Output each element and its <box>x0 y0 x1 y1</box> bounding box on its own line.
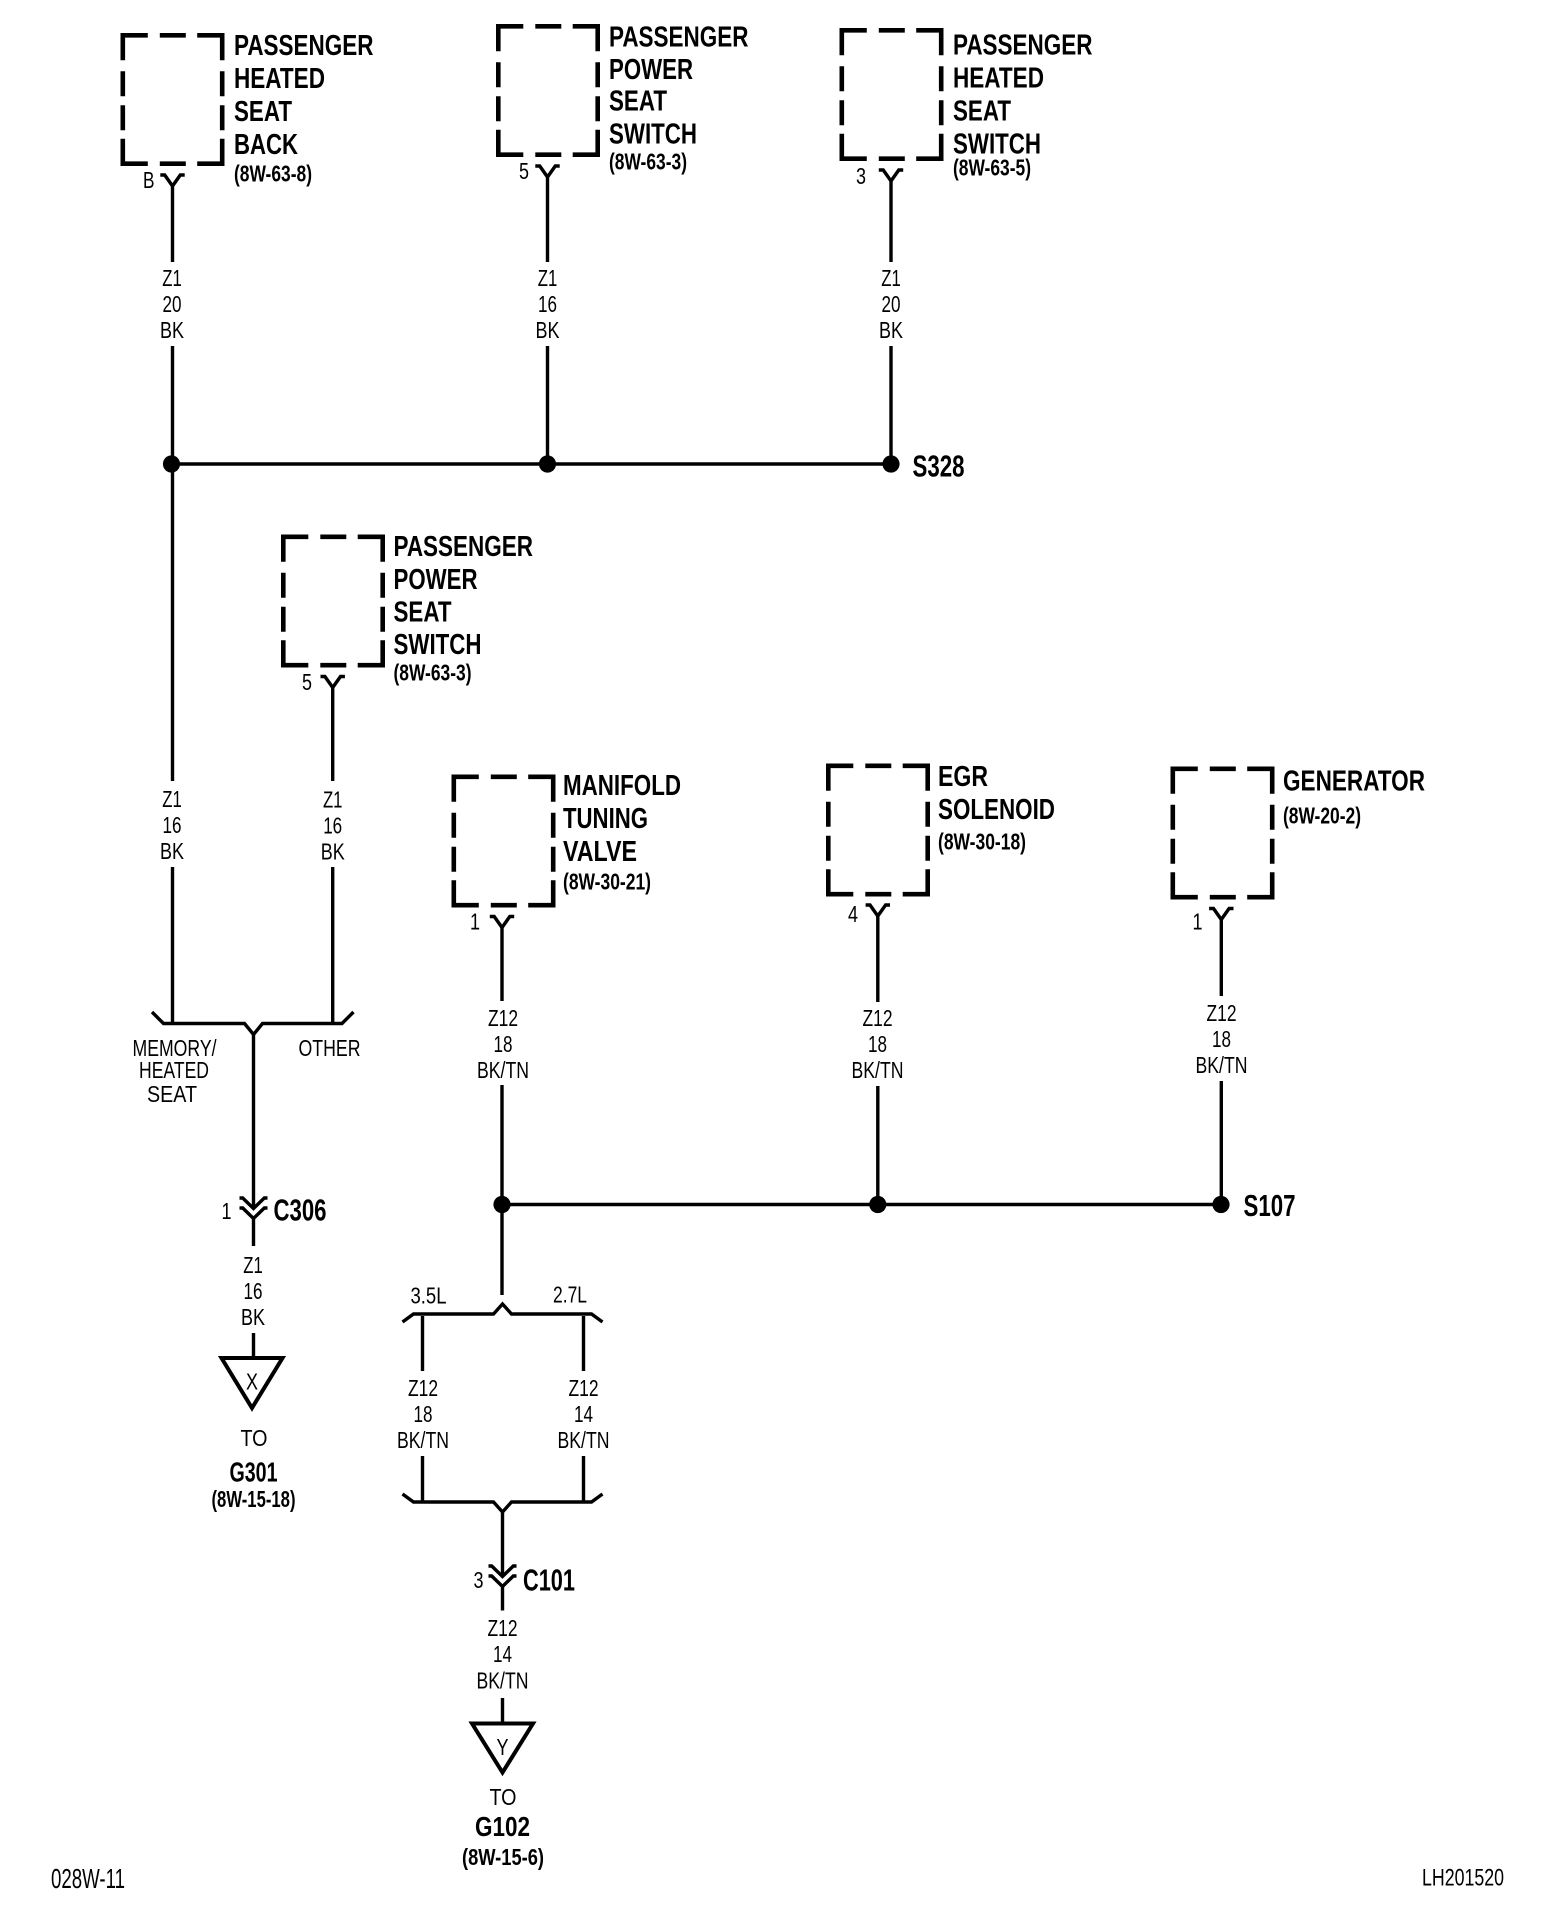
svg-text:18: 18 <box>414 1401 433 1427</box>
svg-text:POWER: POWER <box>394 564 478 596</box>
label PASSENGER POWER SEAT SWITCH (8W-63-3) <box>609 22 749 175</box>
wire to ground G102 <box>501 1698 504 1722</box>
svg-text:G102: G102 <box>475 1811 530 1842</box>
label EGR SOLENOID (8W-30-18) <box>938 761 1055 855</box>
svg-text:BK: BK <box>321 838 346 864</box>
svg-text:POWER: POWER <box>609 54 693 86</box>
svg-text:3: 3 <box>474 1567 484 1593</box>
svg-text:Z1: Z1 <box>538 265 558 291</box>
svg-text:SEAT: SEAT <box>394 597 452 629</box>
wire 2.7L branch lower <box>582 1456 585 1501</box>
merge brace engine variants <box>403 1494 603 1512</box>
svg-text:OTHER: OTHER <box>299 1035 361 1061</box>
svg-text:028W-11: 028W-11 <box>51 1863 125 1894</box>
connector fork pin 3 <box>879 170 903 181</box>
svg-text:20: 20 <box>163 291 182 317</box>
wire splice S107 to engine split <box>500 1205 503 1296</box>
svg-text:BK/TN: BK/TN <box>1196 1052 1248 1078</box>
svg-text:BACK: BACK <box>234 129 298 161</box>
svg-text:14: 14 <box>493 1641 512 1667</box>
junction dot S107 middle <box>869 1196 886 1213</box>
svg-text:SEAT: SEAT <box>234 96 292 128</box>
junction dot S328 left <box>163 455 180 472</box>
svg-text:Z1: Z1 <box>881 265 901 291</box>
svg-text:3: 3 <box>856 163 866 189</box>
wire to ground G301 <box>252 1333 255 1356</box>
svg-text:HEATED: HEATED <box>139 1057 209 1083</box>
junction dot S328 middle <box>539 455 556 472</box>
wire to splice S328 left <box>171 346 174 464</box>
connector fork EGR pin 4 <box>866 905 890 916</box>
svg-text:18: 18 <box>1212 1026 1231 1052</box>
wire Z1 16 BK from power seat switch <box>546 176 549 262</box>
svg-text:PASSENGER: PASSENGER <box>234 30 374 62</box>
label GENERATOR (8W-20-2) <box>1283 766 1425 829</box>
wire Z1 20 BK from heated seat switch <box>889 180 892 262</box>
connector fork generator pin 1 <box>1209 909 1233 920</box>
wire Z12 18 BK/TN from EGR upper <box>876 916 879 1002</box>
svg-text:BK/TN: BK/TN <box>477 1667 529 1693</box>
label PASSENGER HEATED SEAT BACK (8W-63-8) <box>234 30 374 187</box>
label Z1 20 BK <box>160 265 185 343</box>
junction dot S107 right <box>1212 1196 1229 1213</box>
svg-text:Z12: Z12 <box>569 1375 599 1401</box>
svg-text:18: 18 <box>868 1031 887 1057</box>
svg-text:MANIFOLD: MANIFOLD <box>563 770 681 802</box>
svg-text:Z1: Z1 <box>323 787 343 813</box>
svg-text:EGR: EGR <box>938 761 988 793</box>
wire 2.7L branch upper <box>582 1316 585 1371</box>
wire to splice S328 right <box>889 346 892 464</box>
svg-text:(8W-15-18): (8W-15-18) <box>212 1486 296 1512</box>
svg-text:HEATED: HEATED <box>234 63 325 95</box>
svg-text:5: 5 <box>302 669 312 695</box>
component box GENERATOR <box>1173 769 1272 897</box>
svg-text:1: 1 <box>1193 909 1203 935</box>
in-line connector C101 chevrons <box>489 1566 517 1587</box>
wire stub below C101 <box>501 1587 504 1611</box>
svg-text:2.7L: 2.7L <box>553 1282 587 1308</box>
svg-text:BK/TN: BK/TN <box>852 1057 904 1083</box>
wire Z12 18 BK/TN from EGR lower <box>876 1086 879 1205</box>
svg-text:BK/TN: BK/TN <box>477 1057 529 1083</box>
component box PASSENGER POWER SEAT SWITCH (lower) <box>283 537 382 665</box>
wire Z1 20 BK from heated seat back <box>171 186 174 262</box>
merge brace memory/other <box>152 1012 354 1035</box>
label MEMORY/HEATED SEAT <box>133 1035 217 1107</box>
wire merge to connector C306 <box>252 1035 255 1209</box>
svg-text:Y: Y <box>497 1734 509 1760</box>
ground symbol X <box>222 1358 283 1408</box>
svg-text:SEAT: SEAT <box>609 86 667 118</box>
junction dot S107 left <box>493 1196 510 1213</box>
svg-text:LH201520: LH201520 <box>1422 1865 1504 1892</box>
svg-text:SEAT: SEAT <box>147 1081 197 1107</box>
svg-text:BK: BK <box>536 317 561 343</box>
wire 3.5L branch lower <box>421 1456 424 1501</box>
svg-text:SWITCH: SWITCH <box>609 119 697 151</box>
svg-text:G301: G301 <box>230 1457 278 1488</box>
svg-text:5: 5 <box>519 158 529 184</box>
label Z1 16 BK <box>536 265 561 343</box>
component box PASSENGER HEATED SEAT SWITCH <box>842 30 941 158</box>
svg-text:TO: TO <box>490 1784 517 1810</box>
svg-text:(8W-63-3): (8W-63-3) <box>394 660 472 686</box>
svg-text:(8W-63-8): (8W-63-8) <box>234 161 312 187</box>
svg-text:Z12: Z12 <box>488 1005 518 1031</box>
svg-text:1: 1 <box>470 909 480 935</box>
wire stub below C306 <box>252 1219 255 1247</box>
svg-text:SEAT: SEAT <box>953 96 1011 128</box>
component box MANIFOLD TUNING VALVE <box>454 777 553 905</box>
wire Z12 18 BK/TN from MTV lower <box>500 1085 503 1205</box>
svg-text:S328: S328 <box>913 450 965 484</box>
label Z1 16 BK to ground <box>241 1252 266 1330</box>
wire Z1 16 BK memory branch lower <box>171 867 174 1023</box>
connector fork pin 5 <box>535 166 559 177</box>
label Z12 18 BK/TN generator <box>1196 1000 1248 1078</box>
wire Z12 18 BK/TN from generator upper <box>1220 920 1223 997</box>
svg-text:S107: S107 <box>1244 1189 1296 1223</box>
bus wire splice S328 <box>172 462 892 465</box>
svg-text:C306: C306 <box>274 1194 327 1228</box>
svg-text:Z1: Z1 <box>162 786 182 812</box>
svg-text:Z12: Z12 <box>408 1375 438 1401</box>
in-line connector C306 chevrons <box>240 1198 268 1219</box>
wire Z1 16 BK memory branch upper <box>171 464 174 781</box>
svg-text:3.5L: 3.5L <box>411 1283 447 1309</box>
wire 3.5L branch upper <box>421 1316 424 1371</box>
label Z12 18 BK/TN MTV <box>477 1005 529 1083</box>
component box EGR SOLENOID <box>828 766 927 894</box>
junction dot S328 right <box>882 455 899 472</box>
component box PASSENGER HEATED SEAT BACK <box>123 35 222 163</box>
svg-text:BK/TN: BK/TN <box>558 1427 610 1453</box>
svg-text:BK: BK <box>160 317 185 343</box>
svg-text:18: 18 <box>494 1031 513 1057</box>
connector fork MTV pin 1 <box>490 917 514 928</box>
svg-text:PASSENGER: PASSENGER <box>609 22 749 54</box>
svg-text:16: 16 <box>244 1278 263 1304</box>
label PASSENGER POWER SEAT SWITCH (8W-63-3) lower <box>394 531 534 686</box>
svg-text:GENERATOR: GENERATOR <box>1283 766 1425 798</box>
svg-text:14: 14 <box>574 1401 593 1427</box>
svg-text:(8W-30-18): (8W-30-18) <box>938 829 1026 855</box>
wire Z12 18 BK/TN from MTV upper <box>500 928 503 1002</box>
svg-text:BK: BK <box>160 838 185 864</box>
svg-text:20: 20 <box>882 291 901 317</box>
svg-text:16: 16 <box>323 812 342 838</box>
component box PASSENGER POWER SEAT SWITCH (top) <box>498 26 597 154</box>
svg-text:PASSENGER: PASSENGER <box>394 531 534 563</box>
wire merge to connector C101 <box>501 1512 504 1576</box>
svg-text:(8W-30-21): (8W-30-21) <box>563 869 651 895</box>
wire Z12 18 BK/TN from generator lower <box>1220 1081 1223 1205</box>
wire Z1 16 BK other branch lower <box>331 867 334 1023</box>
label Z1 20 BK <box>879 265 904 343</box>
svg-text:TO: TO <box>241 1425 268 1451</box>
svg-text:Z12: Z12 <box>1207 1000 1237 1026</box>
connector fork pin B <box>160 175 184 186</box>
svg-text:BK: BK <box>879 317 904 343</box>
svg-text:BK: BK <box>241 1304 266 1330</box>
label Z1 16 BK other branch <box>321 787 346 865</box>
svg-text:B: B <box>143 167 155 193</box>
svg-text:16: 16 <box>538 291 557 317</box>
svg-text:(8W-15-6): (8W-15-6) <box>462 1844 544 1870</box>
connector fork pin 5 lower <box>321 677 345 688</box>
svg-text:1: 1 <box>222 1198 232 1224</box>
svg-text:HEATED: HEATED <box>953 63 1044 95</box>
svg-text:4: 4 <box>848 901 858 927</box>
svg-text:SOLENOID: SOLENOID <box>938 794 1055 826</box>
svg-text:Z12: Z12 <box>863 1005 893 1031</box>
svg-text:(8W-63-3): (8W-63-3) <box>609 149 687 175</box>
svg-text:(8W-20-2): (8W-20-2) <box>1283 803 1361 829</box>
label Z12 14 BK/TN 2.7L <box>558 1375 610 1453</box>
wire to splice S328 middle <box>546 346 549 464</box>
svg-text:Z12: Z12 <box>488 1615 518 1641</box>
svg-text:C101: C101 <box>523 1564 575 1598</box>
svg-text:SWITCH: SWITCH <box>394 629 482 661</box>
label PASSENGER HEATED SEAT SWITCH (8W-63-5) <box>953 30 1093 181</box>
wire Z1 16 BK other branch upper <box>331 688 334 782</box>
ground symbol Y <box>472 1724 533 1773</box>
label Z12 18 BK/TN 3.5L <box>397 1375 449 1453</box>
svg-text:(8W-63-5): (8W-63-5) <box>953 155 1031 181</box>
label MANIFOLD TUNING VALVE (8W-30-21) <box>563 770 681 895</box>
bus wire splice S107 <box>502 1203 1221 1206</box>
svg-text:16: 16 <box>163 812 182 838</box>
label Z12 18 BK/TN EGR <box>852 1005 904 1083</box>
label Z1 16 BK memory branch <box>160 786 185 864</box>
svg-text:TUNING: TUNING <box>563 803 648 835</box>
label TO G301 (8W-15-18) <box>212 1425 296 1512</box>
svg-text:Z1: Z1 <box>243 1252 263 1278</box>
svg-text:VALVE: VALVE <box>563 836 637 868</box>
svg-text:BK/TN: BK/TN <box>397 1427 449 1453</box>
svg-text:PASSENGER: PASSENGER <box>953 30 1093 62</box>
label TO G102 (8W-15-6) <box>462 1784 544 1870</box>
svg-text:Z1: Z1 <box>162 265 182 291</box>
label Z12 14 BK/TN to ground <box>477 1615 529 1693</box>
split brace engine variants <box>403 1304 603 1322</box>
svg-text:X: X <box>246 1369 258 1395</box>
